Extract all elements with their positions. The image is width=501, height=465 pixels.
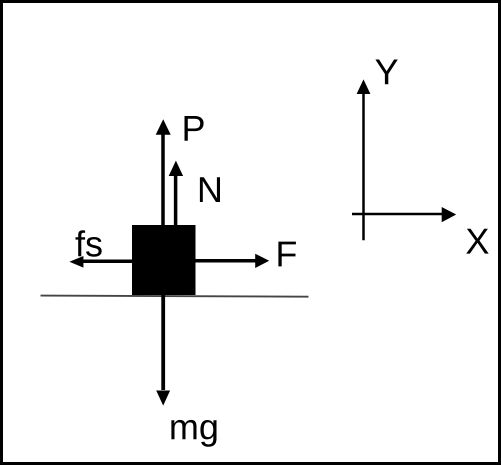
label N [200, 177, 220, 202]
force arrow fs (left) [69, 256, 133, 268]
block (mass) [132, 225, 196, 295]
label mg [171, 420, 216, 447]
force arrow P (up) [156, 119, 171, 242]
label X [466, 229, 489, 254]
force arrow N (up) [169, 161, 183, 242]
label P [185, 116, 204, 141]
label fs [76, 230, 102, 257]
Y axis arrow [357, 79, 371, 240]
surface line [41, 296, 309, 297]
label Y [375, 60, 397, 85]
X axis arrow [352, 207, 456, 222]
force arrow mg (down) [156, 293, 170, 406]
force arrow F (right) [195, 254, 269, 268]
label F [278, 242, 296, 267]
